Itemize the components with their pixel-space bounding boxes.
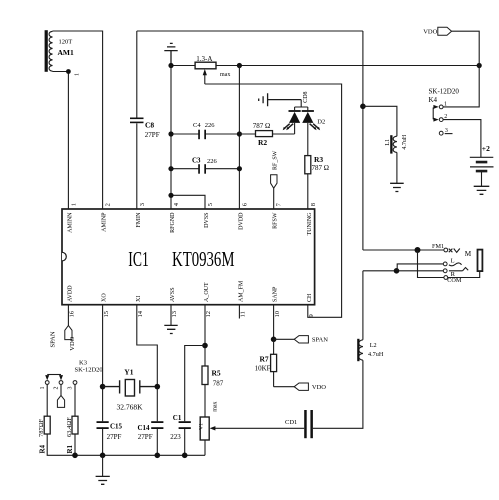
- node R1 rail junction: [72, 453, 78, 459]
- label D2: [317, 118, 325, 125]
- node rail-ground junction: [168, 63, 173, 68]
- jack M R spring: [449, 268, 468, 271]
- label L1 value 4.7uH: [402, 134, 408, 150]
- label K3: [79, 359, 87, 366]
- svg-text:R2: R2: [258, 138, 267, 147]
- label C4: [193, 122, 201, 129]
- crystal Y1 left plate: [103, 380, 120, 393]
- node FM1 junction: [415, 247, 421, 253]
- wire R line from L2: [363, 270, 445, 272]
- inductor L1 core: [390, 135, 392, 153]
- label C3: [192, 157, 201, 165]
- pin 5 name DVSS: [204, 213, 210, 228]
- label R: [451, 271, 456, 278]
- svg-text:10: 10: [274, 311, 281, 318]
- wire wiper to CH pin9: [205, 84, 342, 317]
- svg-text:1: 1: [40, 387, 46, 390]
- capacitor C4 leads: [171, 133, 239, 135]
- svg-text:AVSS: AVSS: [170, 287, 176, 302]
- label R2 value 787 ohm: [253, 122, 270, 130]
- label K3 contact numbers rotated: [40, 387, 74, 390]
- jack M contact L: [443, 262, 447, 266]
- svg-text:4.7uH: 4.7uH: [368, 351, 384, 358]
- crystal Y1 body: [125, 380, 134, 397]
- label CD8: [303, 91, 309, 102]
- LED D2 right light arrows: [310, 124, 321, 131]
- label K4: [429, 96, 438, 104]
- switch K4 actuator: [433, 105, 439, 122]
- svg-text:3: 3: [68, 387, 74, 390]
- wire A_OUT to C1: [185, 346, 205, 456]
- LED D2 right diode: [302, 112, 313, 123]
- svg-text:KT0936M: KT0936M: [172, 247, 235, 271]
- pin 8 name TUNING: [307, 212, 313, 236]
- pin 7 name RFSW: [273, 212, 279, 229]
- label R5 value 787: [213, 379, 224, 387]
- svg-text:L: L: [451, 258, 455, 265]
- svg-text:8: 8: [310, 203, 317, 206]
- label max (1.3-A): [220, 72, 230, 78]
- resistor R7 body: [271, 354, 277, 371]
- node C3 left junction: [168, 166, 173, 171]
- label R1 rotated: [66, 444, 74, 453]
- svg-text:4: 4: [173, 202, 180, 206]
- label L: [451, 258, 455, 265]
- wire FM1 line to jack: [363, 249, 446, 251]
- svg-text:R1: R1: [66, 444, 74, 453]
- label M: [465, 250, 472, 258]
- wire FM trunk vertical x363: [362, 31, 364, 250]
- label K3 SK-12D20: [75, 366, 103, 373]
- ground sideways (LED common): [259, 93, 302, 106]
- svg-text:L2: L2: [370, 342, 377, 349]
- pin 14 name XI: [136, 296, 142, 302]
- svg-text:120T: 120T: [59, 39, 73, 46]
- wire LED right anode to R3: [307, 123, 309, 156]
- svg-text:XI: XI: [136, 296, 142, 302]
- label R2: [258, 138, 267, 147]
- node L-R junction: [394, 268, 400, 274]
- wire pin13 AVSS stub: [170, 305, 172, 326]
- label VDO right: [312, 384, 326, 391]
- svg-text:SK-12D20: SK-12D20: [75, 366, 103, 373]
- svg-text:max: max: [212, 401, 218, 411]
- label R3: [314, 155, 323, 164]
- wire FMIN pin3 vertical through C8: [136, 31, 138, 209]
- svg-text:V1: V1: [199, 423, 205, 430]
- svg-text:16: 16: [69, 310, 76, 317]
- capacitor C1: [179, 421, 191, 429]
- label C8 value 27PF: [145, 131, 160, 139]
- label R5: [212, 368, 221, 377]
- label L1: [385, 139, 391, 146]
- switch K4 contact 2: [439, 118, 443, 122]
- potentiometer 1.3-A body: [195, 62, 216, 69]
- svg-text:32.768K: 32.768K: [117, 403, 144, 412]
- label C14: [138, 424, 151, 432]
- svg-text:AM1: AM1: [58, 48, 74, 57]
- label K4 contact numbers: [444, 101, 448, 134]
- capacitor C4 plates: [198, 130, 206, 140]
- netflag SPAN right: [294, 336, 308, 343]
- svg-text:IC1: IC1: [128, 247, 149, 271]
- wire R3 to pin8 TUNING: [307, 174, 309, 209]
- label VDO left rotated: [69, 336, 76, 350]
- svg-text:223: 223: [170, 433, 181, 441]
- svg-text:AM_FM: AM_FM: [238, 280, 244, 302]
- svg-text:2: 2: [444, 114, 447, 120]
- pin 16 name AVDD: [67, 285, 73, 302]
- netflag RF_SW: [271, 175, 277, 189]
- jack M L spring: [449, 263, 462, 266]
- label C15 value 27PF: [107, 433, 122, 441]
- label L2: [370, 342, 377, 349]
- netflag VDO right: [294, 383, 308, 390]
- svg-text:5: 5: [207, 203, 214, 206]
- svg-text:Y1: Y1: [124, 367, 133, 376]
- capacitor CD1: [304, 410, 313, 438]
- wire K3 contact1 to R4: [46, 385, 48, 417]
- svg-text:DVSS: DVSS: [204, 213, 210, 228]
- svg-text:C15: C15: [110, 422, 123, 430]
- svg-text:XO: XO: [102, 293, 108, 302]
- op-amp U1 / IC1 KT0936M body: [62, 209, 315, 305]
- label Y1: [124, 367, 133, 376]
- node A_OUT junction: [202, 343, 208, 349]
- svg-text:15: 15: [103, 311, 110, 318]
- label RF_SW: [273, 150, 279, 170]
- wire RFGND vertical: [170, 66, 172, 210]
- pin 3 name FMIN: [136, 212, 142, 228]
- jack M contact FM1: [444, 248, 448, 252]
- label R7 value 10KF: [255, 364, 271, 372]
- label C1 value 223: [170, 433, 181, 441]
- wire pin12 A_OUT down: [204, 305, 206, 366]
- wire K3 contact2 to flag: [60, 385, 62, 396]
- svg-text:3: 3: [139, 203, 146, 206]
- label SPAN left rotated: [50, 331, 57, 347]
- wire L2 top trunk: [362, 271, 364, 340]
- pin 15 name XO: [102, 293, 108, 302]
- svg-text:C4: C4: [193, 122, 201, 129]
- svg-text:D2: D2: [317, 118, 325, 125]
- svg-text:2: 2: [105, 203, 112, 206]
- svg-text:R3: R3: [314, 155, 323, 164]
- switch K4 contact 1: [439, 105, 443, 109]
- label AM1 pin number 1: [74, 73, 80, 76]
- pin 9 name CH: [307, 293, 313, 302]
- switch K4 contact3 stub: [445, 133, 453, 135]
- capacitor C15: [97, 421, 109, 429]
- svg-text:787: 787: [213, 379, 224, 387]
- svg-text:12: 12: [205, 311, 212, 318]
- svg-text:C1: C1: [173, 414, 182, 422]
- label COM: [447, 277, 462, 284]
- resistor R2 leads: [239, 133, 294, 135]
- svg-text:27PF: 27PF: [107, 433, 122, 441]
- wire RF_SW flag to pin7: [273, 188, 275, 209]
- wire CD1 to V1 wiper with arrow: [210, 426, 305, 430]
- wire AM1 top to pin2: [53, 31, 103, 209]
- node AM1 pin1 junction: [66, 69, 71, 74]
- switch K4 contact 3: [439, 131, 443, 135]
- capacitor C14: [151, 421, 163, 429]
- LED D2 left light arrows: [283, 124, 294, 131]
- svg-text:SANP: SANP: [273, 286, 279, 302]
- pin numbers top 1-8: [71, 202, 317, 206]
- node SANP junction: [271, 337, 277, 343]
- resistor R2 body: [256, 131, 273, 137]
- label VDO top right: [423, 29, 437, 36]
- wire RFGND-DVSS tie to pin5: [171, 195, 205, 209]
- inductor L1 coil: [393, 136, 397, 152]
- label C4 value 226: [205, 122, 216, 129]
- node L1 branch junction: [360, 104, 366, 110]
- wire V1 to rail: [204, 440, 206, 455]
- wire pin11 AM_FM stub: [238, 305, 240, 319]
- svg-text:SPAN: SPAN: [312, 336, 328, 343]
- label C15: [110, 422, 123, 430]
- wire AM1 bottom to pin1: [53, 72, 69, 210]
- svg-text:226: 226: [207, 158, 218, 165]
- wire DVDD pin6 vertical: [238, 66, 240, 210]
- capacitor C3 plates: [198, 164, 206, 174]
- svg-text:7: 7: [276, 202, 283, 206]
- svg-text:4.7uH: 4.7uH: [402, 134, 408, 150]
- svg-text:+2: +2: [482, 144, 490, 153]
- wire battery to ground: [481, 171, 483, 186]
- ground top (RFGND rail): [164, 43, 177, 65]
- pin 2 name AMINP: [102, 212, 108, 232]
- wire SANP to SPAN flag: [274, 338, 295, 340]
- svg-text:1: 1: [71, 203, 78, 206]
- connector jack M barrel: [478, 250, 483, 272]
- LED D2 left diode: [289, 112, 300, 123]
- label 120T: [59, 39, 73, 46]
- jack M contact COM: [444, 276, 448, 280]
- node C4 right junction: [237, 131, 242, 136]
- switch K3 contact 2: [59, 381, 63, 385]
- node XO-Y1 junction: [100, 384, 106, 390]
- LED D2 right cathode bar: [302, 110, 314, 112]
- svg-text:C8: C8: [145, 120, 154, 129]
- node C3 right junction: [237, 166, 242, 171]
- label Y1 value 32.768K: [117, 403, 144, 412]
- switch K3 contact 3: [73, 381, 77, 385]
- label R3 value 787 ohm: [312, 164, 329, 172]
- wire bottom ground stem: [102, 455, 104, 476]
- wire K4 contact2 to battery: [443, 120, 481, 158]
- svg-text:FM1: FM1: [432, 243, 444, 250]
- node XI-Y1 junction: [155, 384, 161, 390]
- label AM1: [58, 48, 74, 57]
- battery B1: [470, 157, 494, 171]
- inductor L2 coil: [359, 340, 363, 360]
- resistor R5 body: [202, 366, 208, 385]
- wire L2 bottom to CD1: [313, 360, 363, 428]
- svg-text:TUNING: TUNING: [307, 212, 313, 236]
- jack M FM1 spring: [449, 249, 460, 253]
- svg-text:RF_SW: RF_SW: [273, 150, 279, 170]
- netflag under K3 contact2: [57, 395, 64, 407]
- svg-text:6: 6: [242, 202, 249, 206]
- crystal Y1 right plate: [140, 380, 158, 393]
- ground bottom: [96, 476, 110, 484]
- svg-text:226: 226: [205, 122, 216, 129]
- pin 6 name DVDD: [238, 212, 244, 230]
- svg-text:RFSW: RFSW: [273, 212, 279, 229]
- svg-text:AVDD: AVDD: [67, 285, 73, 302]
- label CD1: [285, 419, 297, 426]
- label 1.3-A: [196, 55, 212, 63]
- label C3 value 226: [207, 158, 218, 165]
- label R4 rotated: [38, 444, 46, 453]
- wire pin10 SANP down: [273, 305, 275, 340]
- svg-text:C3: C3: [192, 157, 201, 165]
- svg-text:VDO: VDO: [312, 384, 326, 391]
- svg-text:14: 14: [137, 310, 144, 317]
- wire top rail FMIN to FM antenna trunk: [137, 30, 363, 32]
- resistor R7 leads: [273, 339, 275, 386]
- svg-text:SK-12D20: SK-12D20: [429, 88, 460, 96]
- LED D2 bridge: [295, 107, 308, 111]
- wire VDO flag to rail: [452, 31, 480, 65]
- svg-text:COM: COM: [447, 277, 462, 284]
- pin 12 name A_OUT: [204, 282, 210, 302]
- wire pin14 XI jog down: [137, 305, 158, 456]
- LED D2 left cathode bar: [289, 110, 301, 112]
- label L2 value 4.7uH: [368, 351, 384, 358]
- label SPAN right: [312, 336, 328, 343]
- wire LED left anode to R2: [294, 123, 296, 134]
- svg-text:27PF: 27PF: [145, 131, 160, 139]
- svg-text:2: 2: [54, 387, 60, 390]
- wire pin15 XO down: [102, 305, 104, 456]
- label KT0936M: [172, 247, 235, 271]
- wire pin16 AVDD stub: [67, 305, 69, 326]
- label R4 value rotated: [38, 418, 45, 437]
- jack M contact R: [443, 269, 447, 273]
- potentiometer 1.3-A wiper arrow: [203, 69, 207, 84]
- pin 10 name SANP: [273, 286, 279, 302]
- svg-text:A_OUT: A_OUT: [204, 282, 210, 302]
- svg-text:13: 13: [171, 311, 178, 318]
- pin 1 name AMINN: [67, 212, 73, 233]
- svg-text:L1: L1: [385, 139, 391, 146]
- label battery +2: [482, 144, 490, 153]
- switch K3 actuator: [45, 375, 63, 381]
- ground AVSS: [164, 325, 177, 333]
- node C14 rail junction: [155, 453, 161, 459]
- wire R1 to rail: [74, 434, 76, 455]
- label K4 SK-12D20: [429, 88, 460, 96]
- node rail-DVDD junction: [237, 63, 242, 68]
- svg-text:DVDD: DVDD: [238, 212, 244, 230]
- inductor L2 core: [357, 339, 359, 361]
- label R7: [260, 354, 269, 363]
- svg-text:VDO: VDO: [69, 336, 76, 350]
- resistor R4 body: [44, 416, 50, 434]
- svg-text:max: max: [220, 72, 230, 78]
- svg-text:K3: K3: [79, 359, 87, 366]
- wire COM branch: [418, 250, 480, 278]
- svg-text:VDO: VDO: [423, 29, 437, 36]
- pin 4 name RFGND: [170, 212, 176, 233]
- wire K3 contact3 to R1: [74, 385, 76, 417]
- svg-text:1: 1: [444, 101, 447, 107]
- label C8: [145, 120, 154, 129]
- svg-text:RFGND: RFGND: [170, 212, 176, 233]
- switch K3 contact 1: [45, 381, 49, 385]
- svg-text:R7: R7: [260, 354, 269, 363]
- svg-text:CD8: CD8: [303, 91, 309, 102]
- label IC1: [128, 247, 149, 271]
- transformer AM1 core: [45, 30, 48, 72]
- svg-text:63.4ΩF: 63.4ΩF: [66, 417, 73, 437]
- ground L1: [390, 183, 404, 191]
- svg-text:CH: CH: [307, 293, 313, 302]
- svg-text:27PF: 27PF: [138, 433, 153, 441]
- netflag VDO top right: [438, 27, 452, 35]
- wire K4 contact1 to rail: [443, 66, 479, 107]
- netflag VDO under pin16: [65, 326, 72, 340]
- svg-text:AMINN: AMINN: [67, 212, 73, 233]
- node C4 left junction: [168, 131, 173, 136]
- wire L1 to ground: [396, 152, 398, 183]
- svg-text:9: 9: [308, 314, 315, 317]
- resistor R3 body: [305, 156, 311, 174]
- svg-text:C14: C14: [138, 424, 151, 432]
- wire L jog: [397, 264, 445, 271]
- node RFGND-DVSS junction: [168, 193, 173, 198]
- svg-text:787ΩF: 787ΩF: [38, 418, 45, 437]
- capacitor C3 leads: [171, 168, 239, 170]
- transformer AM1 coil: [49, 31, 52, 71]
- pin numbers bottom 16-9: [69, 310, 315, 317]
- svg-text:1: 1: [74, 73, 80, 76]
- svg-text:FMIN: FMIN: [136, 212, 142, 228]
- svg-text:3: 3: [445, 128, 448, 134]
- svg-text:CD1: CD1: [285, 419, 297, 426]
- svg-text:1.3-A: 1.3-A: [196, 55, 212, 63]
- label V1 rotated: [199, 423, 205, 430]
- ground battery: [474, 186, 490, 194]
- svg-text:M: M: [465, 250, 472, 258]
- svg-text:10KF: 10KF: [255, 364, 271, 372]
- resistor R1 body: [72, 416, 78, 434]
- capacitor C8: [130, 118, 144, 124]
- svg-text:AMINP: AMINP: [102, 212, 108, 232]
- label max (V1) rotated: [212, 401, 218, 411]
- node C15 rail junction: [100, 453, 106, 459]
- svg-text:11: 11: [240, 311, 247, 317]
- svg-text:K4: K4: [429, 96, 438, 104]
- potentiometer V1 body: [200, 417, 209, 440]
- svg-text:787 Ω: 787 Ω: [312, 164, 329, 172]
- label C1: [173, 414, 182, 422]
- wire VDD rail y65.5: [171, 65, 479, 67]
- wire L1 branch: [363, 106, 397, 136]
- wire R4 to rail: [47, 434, 205, 455]
- svg-text:SPAN: SPAN: [50, 331, 57, 347]
- wire R5 to V1: [204, 385, 206, 418]
- svg-text:R4: R4: [38, 444, 46, 453]
- label FM1: [432, 243, 444, 250]
- node rail-VDO junction: [477, 63, 482, 68]
- wire R7 to VDO flag: [274, 386, 295, 388]
- node C1 rail junction: [182, 453, 188, 459]
- svg-text:R5: R5: [212, 368, 221, 377]
